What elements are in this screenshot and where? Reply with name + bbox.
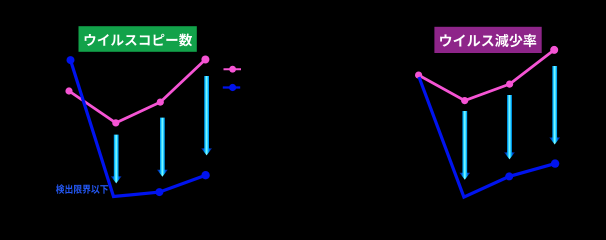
left pink point 3 — [157, 99, 164, 106]
left pink point 1 — [65, 87, 72, 94]
right pink point 4 — [550, 46, 558, 54]
legend pink marker (line + dot) — [224, 66, 242, 73]
right pink point 1 — [415, 72, 422, 79]
left pink point 4 — [201, 56, 209, 64]
right pink point 3 — [506, 81, 513, 88]
left chart pink line (virus copy count curve) — [69, 60, 205, 123]
right chart title text ウイルス減少率 — [440, 34, 536, 47]
cyan down-arrow 1 (right chart) — [460, 111, 471, 180]
left blue point 1 — [67, 56, 75, 64]
left chart blue line (drops below detection limit) — [71, 60, 206, 196]
left pink point 2 — [112, 119, 119, 126]
right chart title box (purple) — [434, 27, 541, 53]
cyan down-arrow 3 (right chart) — [549, 66, 560, 145]
left chart title text ウイルスコピー数 — [85, 33, 193, 46]
annotation text 検出限界以下 (below detection limit) — [56, 184, 108, 193]
left blue point 2 — [155, 188, 163, 196]
right blue point 1 — [505, 172, 513, 180]
cyan down-arrow 2 (right chart) — [504, 95, 515, 159]
left blue point 3 — [201, 171, 209, 179]
right blue point 2 — [551, 159, 559, 167]
cyan down-arrow 1 (left chart) — [111, 135, 122, 184]
right pink point 2 — [461, 97, 468, 104]
legend blue marker (line + dot) — [223, 84, 240, 91]
cyan down-arrow 2 (left chart) — [157, 118, 168, 177]
cyan down-arrow 3 (left chart) — [201, 76, 212, 155]
right chart pink line (virus reduction rate curve) — [419, 50, 555, 101]
right chart blue line — [419, 77, 555, 197]
left chart title box (green) — [79, 26, 197, 52]
